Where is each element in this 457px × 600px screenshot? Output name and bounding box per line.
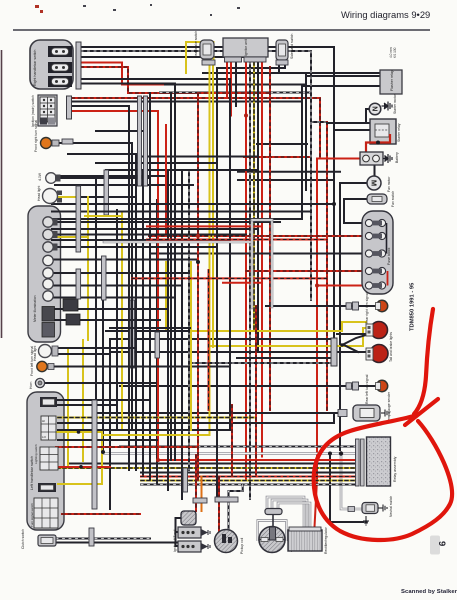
- wire reddash vertical x232: [231, 405, 233, 477]
- left long vertical yellow x68: [67, 350, 69, 466]
- svg-text:Ignitor unit: Ignitor unit: [244, 39, 248, 56]
- wire meter row 234: [52, 234, 246, 236]
- svg-text:Head light: Head light: [37, 186, 41, 201]
- wire tail yellow 2: [210, 328, 367, 346]
- wire headlight yellow: [58, 196, 88, 198]
- wire handlebar row5 red/black: [81, 67, 198, 93]
- starter switch connector: [48, 62, 72, 73]
- wires layer placeholder: [45, 42, 380, 546]
- flasher relay: [380, 70, 402, 94]
- wire headlight high 2: [55, 184, 193, 186]
- pickup connector bar: [215, 497, 238, 502]
- wire relay feed r7 yellow/black: [141, 480, 356, 482]
- svg-text:4.0W: 4.0W: [38, 172, 42, 181]
- pickup coil: [215, 530, 245, 555]
- svg-text:M: M: [369, 180, 378, 186]
- wire lhs horn switch: [57, 399, 148, 401]
- left vertical black x150: [149, 93, 151, 479]
- wire fan motor feed: [340, 182, 367, 184]
- turn indicator lamp: [43, 229, 53, 239]
- headlight bulb low: [33, 345, 58, 362]
- fuse 3 (ignition): [365, 250, 385, 257]
- vertical black x230: [229, 79, 231, 430]
- junction dot f: [328, 452, 332, 456]
- wire reddash row93 ext: [198, 92, 270, 94]
- wire row 197: [81, 196, 136, 198]
- svg-text:Meter illumination: Meter illumination: [33, 295, 37, 322]
- connector bar right of handlebar switch: [76, 42, 81, 89]
- front left turn signal: [30, 346, 54, 376]
- wire turn switch reddash row: [62, 513, 140, 515]
- wire starter motor feed: [366, 109, 370, 123]
- wire battery negative drop: [374, 165, 376, 176]
- wire coil feed orange: [201, 477, 203, 512]
- left vertical black x171: [170, 93, 172, 461]
- wire relay feed r3 black: [68, 463, 356, 465]
- wire row 163: [96, 162, 217, 164]
- wire meter row 259: [52, 259, 196, 261]
- vertical black x217: [216, 68, 218, 497]
- wire headlight low 2: [58, 353, 110, 355]
- svg-text:Rectifier/regulator: Rectifier/regulator: [324, 526, 328, 554]
- connector bar x101: [102, 256, 107, 300]
- rear brake switch: [194, 31, 215, 65]
- wire white loop vertical 2: [271, 220, 274, 307]
- svg-text:Starter relay: Starter relay: [397, 123, 401, 142]
- sidestand ground lug: [363, 516, 369, 525]
- vertical ignitor drop black: [235, 62, 237, 106]
- wire reddash vertical x208: [208, 270, 210, 410]
- wire row 154: [68, 153, 136, 155]
- connector bar mid x149: [144, 96, 148, 186]
- connector block mid 1: [63, 299, 78, 311]
- svg-text:Temp gauge sender: Temp gauge sender: [387, 391, 391, 422]
- junction dot tail trunk: [340, 343, 344, 347]
- junction dot i: [196, 260, 200, 264]
- wire lhs dimmer2 yellow/black: [58, 417, 254, 419]
- wire black tail trunk: [106, 330, 190, 332]
- alternator: [258, 509, 293, 553]
- wire clutch switch 1 black/white: [56, 538, 150, 540]
- vertical yellow/black x254: [253, 62, 255, 330]
- vertical red/black x327: [326, 122, 328, 410]
- wire rear left turn feed: [120, 385, 376, 387]
- wire blackwhite mid: [160, 92, 311, 94]
- wire lighting red row: [57, 466, 110, 468]
- rear right turn signal: [346, 292, 388, 324]
- connector bar x130: [130, 300, 135, 368]
- wire front right turn: [51, 143, 132, 430]
- vertical red x162: [157, 111, 159, 460]
- fuse 2 (signal): [365, 232, 385, 239]
- temp gauge block: [42, 307, 55, 322]
- wire yellow rear brake top: [186, 42, 214, 73]
- vertical red x262: [261, 62, 263, 457]
- vertical yellow x206: [209, 64, 211, 435]
- chapter tab 9: [430, 536, 440, 555]
- headlight bulb high: [37, 186, 62, 204]
- oil level indicator lamp: [43, 255, 53, 265]
- wire lhs dimmer1: [57, 404, 117, 406]
- svg-text:Starter motor: Starter motor: [393, 93, 397, 114]
- wire tail feed row1: [110, 338, 331, 340]
- wire row 156: [143, 156, 258, 158]
- header rule: [13, 29, 430, 31]
- svg-text:Lighting switch: Lighting switch: [34, 444, 38, 464]
- lighting switch grid: [34, 444, 58, 470]
- wire fuse1 feed: [344, 222, 365, 224]
- starter relay: [366, 119, 401, 153]
- starter motor: [369, 93, 397, 114]
- wire rear brake to flasher row: [203, 72, 380, 74]
- left vertical black x129: [128, 106, 130, 470]
- wire handlebar row1 black: [81, 46, 334, 48]
- dimmer switch grid: [41, 416, 56, 440]
- wire relay feed r5 black: [141, 472, 356, 474]
- relay assembly: [367, 437, 398, 486]
- wire black 144: [257, 143, 307, 145]
- passing switch connector: [38, 483, 56, 492]
- vertical black x334: [333, 47, 335, 360]
- wire battery positive red: [317, 158, 363, 160]
- wire fuel pump feed: [96, 412, 338, 414]
- left vertical black x175: [174, 84, 176, 461]
- connector block mid 2: [66, 314, 80, 325]
- left handlebar switch body: [27, 392, 64, 530]
- wire lhs lighting1: [58, 415, 334, 423]
- svg-text:Flasher relay: Flasher relay: [390, 70, 394, 91]
- fuse block: [362, 211, 393, 294]
- vertical red/black x196: [197, 93, 199, 480]
- wire white loop vertical 1: [251, 220, 254, 308]
- front right turn signal: [34, 120, 59, 152]
- wire flasher row2: [165, 76, 380, 85]
- left vertical black x157: [156, 200, 158, 484]
- wire row 131: [96, 130, 146, 132]
- connector bar x76 lower: [76, 269, 81, 299]
- wire meter row 297: [52, 297, 175, 299]
- left long vertical yellow x83: [82, 340, 84, 461]
- tail and brake light 2: [366, 332, 393, 363]
- wire reddash vertical x256: [255, 306, 257, 475]
- ignitor unit: [223, 38, 268, 62]
- wire handlebar row7 black: [81, 83, 175, 85]
- ignition switch connector bar: [67, 96, 72, 119]
- fuse 4 (fan): [365, 267, 385, 274]
- wire lhs row 440: [58, 439, 157, 441]
- junction dot d: [315, 284, 319, 288]
- coil connector bar: [193, 498, 207, 503]
- wire lhs lighting2: [58, 429, 230, 431]
- junction dot yellow tail: [188, 329, 192, 333]
- svg-text:Rear left turn signal: Rear left turn signal: [365, 374, 369, 404]
- svg-text:Horn: Horn: [29, 382, 33, 389]
- fuel pump ground: [381, 410, 389, 417]
- fan switch: [367, 191, 395, 207]
- wire relay feed r1 black/white: [120, 446, 356, 448]
- junction dot a: [339, 451, 343, 455]
- wire white loop top: [252, 219, 272, 222]
- left vertical black x136: [135, 155, 137, 470]
- left vertical black x96: [95, 176, 97, 452]
- junction dot g: [101, 450, 105, 454]
- scan speckles top: [35, 5, 43, 13]
- clutch connector bar: [89, 528, 94, 546]
- svg-text:Battery: Battery: [395, 152, 399, 163]
- wire black 180: [238, 179, 334, 181]
- tail and brake light 1: [366, 322, 388, 339]
- wire ignition switch black: [72, 101, 302, 103]
- neutral switch: [362, 496, 393, 517]
- tail light connector bar: [331, 338, 337, 366]
- engine stop switch connector: [48, 76, 72, 87]
- vertical black x302: [301, 86, 303, 219]
- wire meter row 211: [52, 211, 311, 213]
- wire meter row 273: [52, 272, 189, 274]
- svg-text:Fan switch: Fan switch: [391, 191, 395, 207]
- wire fuse4 feed red/black: [246, 270, 365, 272]
- vertical black x258: [257, 57, 259, 350]
- svg-text:Sidestand switch: Sidestand switch: [290, 33, 294, 59]
- junction dot e: [332, 202, 336, 206]
- wire main fuse red link: [317, 285, 365, 287]
- wire handlebar row4 red: [81, 63, 246, 85]
- fuse 1 (headlight): [365, 219, 385, 226]
- svg-text:Rear right turn signal: Rear right turn signal: [365, 292, 369, 324]
- component bodies underlay: [27, 40, 73, 530]
- fuel gauge block: [42, 323, 55, 338]
- svg-text:Scanned by Stalker: Scanned by Stalker: [401, 589, 457, 595]
- wire black 171.7 fan feed: [238, 171, 340, 173]
- wire relay feed r8 black/white: [141, 484, 356, 486]
- svg-text:KS 130: KS 130: [393, 47, 397, 58]
- vertical black x306: [305, 73, 307, 190]
- wire yellow vertical x166: [165, 262, 167, 331]
- wire fuse2 feed red/black: [149, 235, 365, 237]
- wire horn feed: [45, 382, 155, 384]
- relay assembly connector bars: [356, 439, 360, 486]
- left vertical yellow x122: [121, 213, 123, 430]
- wire white loop horizontal: [104, 241, 252, 244]
- wire flasher row3: [302, 85, 380, 87]
- svg-text:TDM850 1991 - 95: TDM850 1991 - 95: [410, 282, 416, 331]
- wire tail yellow 1: [190, 322, 366, 331]
- wire meter row 204: [52, 203, 334, 205]
- meter lamp 3: [43, 291, 53, 301]
- wire handlebar row2 black/white: [81, 50, 311, 52]
- right handlebar switch body: [30, 40, 73, 89]
- wire row 170: [106, 169, 258, 171]
- wire sidestand pin1: [278, 65, 280, 73]
- wire blackdash corner: [311, 121, 327, 123]
- wire front left turn: [54, 366, 230, 368]
- left vertical black x117: [116, 210, 118, 430]
- left vertical black x182: [181, 170, 183, 499]
- horn: [29, 378, 45, 389]
- fuse bus red: [387, 271, 389, 286]
- components layer placeholder: [21, 31, 402, 554]
- wire fan switch feed: [344, 199, 367, 223]
- wire alternator white 3: [278, 503, 310, 527]
- ignition HT coil unit: [173, 511, 196, 552]
- wire relay feed r4 yellow/black: [57, 467, 356, 469]
- svg-text:LO: LO: [42, 435, 47, 439]
- wire alternator white 2: [272, 500, 307, 527]
- svg-text:Rear brake switch: Rear brake switch: [194, 31, 198, 58]
- connector bar small horizontal x62: [62, 139, 73, 144]
- fuse 5 (main): [365, 282, 385, 289]
- vertical yellow x210: [212, 64, 214, 347]
- connector bar x93: [92, 400, 97, 509]
- vertical black x340 fan/neutral: [339, 183, 341, 450]
- wire ignition switch red: [72, 110, 158, 112]
- wire red row 283: [223, 282, 262, 284]
- wire neutral white drop: [341, 454, 362, 510]
- battery ground: [383, 154, 392, 163]
- svg-text:Clutch switch: Clutch switch: [21, 529, 25, 549]
- front brake switch connector: [48, 46, 72, 57]
- vertical ignitor drop red2: [230, 62, 232, 116]
- wire black row 358: [237, 357, 331, 359]
- wire reddash row 239: [147, 239, 327, 241]
- junction dot c: [196, 234, 200, 238]
- vertical red/black x270: [269, 67, 271, 410]
- svg-text:Front left turn signal: Front left turn signal: [30, 346, 34, 376]
- svg-text:Fuse block: Fuse block: [387, 247, 391, 265]
- scan left edge line: [1, 50, 3, 338]
- wire sidestand pin2: [217, 65, 285, 68]
- meter lamp 1: [43, 268, 53, 278]
- wire meter row 285: [52, 285, 182, 287]
- wire ignition switch brown: [72, 105, 129, 107]
- vertical black x330 relay down: [330, 454, 363, 523]
- wire meter row 222: [52, 221, 280, 223]
- svg-text:Fan motor: Fan motor: [387, 176, 391, 192]
- wire neutral white row: [104, 452, 356, 455]
- wire ignition switch red/black: [72, 98, 320, 157]
- wire starter relay feed1: [327, 122, 371, 124]
- wire temp gauge row: [55, 319, 160, 321]
- horn switch connector: [40, 397, 57, 407]
- junction dot h: [244, 114, 248, 118]
- wire reddash 157: [244, 156, 311, 158]
- headlight connector bar upper: [76, 186, 81, 252]
- wire pickup lead reddash: [218, 477, 220, 532]
- wire coil primary bus: [176, 518, 184, 546]
- clutch switch: [21, 529, 56, 549]
- wire black row 328: [110, 327, 190, 329]
- left vertical black x103: [102, 262, 104, 452]
- rear left turn signal: [346, 374, 388, 404]
- wire starter relay feed2: [334, 129, 371, 131]
- wire meter row 229: [52, 228, 258, 230]
- wire lhs yellow feed: [102, 434, 210, 436]
- connector bar x104 upper: [104, 170, 109, 215]
- junction dot b: [156, 458, 160, 462]
- turn signal switch grid: [30, 498, 58, 528]
- starter motor ground: [382, 102, 393, 111]
- wire yellow vertical x191: [190, 262, 192, 430]
- red highlight scribble: [314, 309, 452, 540]
- wire red row 226: [147, 225, 262, 227]
- wire tail feed row2: [110, 351, 331, 353]
- neutral switch ground: [378, 505, 387, 512]
- instrument cluster body: [28, 206, 61, 342]
- vertical black/white x311: [310, 51, 312, 300]
- left vertical black x143: [142, 170, 144, 475]
- wire meter row 240: [52, 239, 230, 241]
- connector bar x183: [183, 468, 188, 492]
- wire meter row 219: [52, 218, 302, 220]
- svg-text:Turn signal switch: Turn signal switch: [30, 503, 34, 527]
- ignition coil 1 with spark plugs: [178, 527, 210, 538]
- svg-text:Wiring diagrams 9•29: Wiring diagrams 9•29: [341, 9, 430, 20]
- wire lhs passing red/black: [56, 446, 196, 448]
- rectifier / regulator: [288, 526, 328, 554]
- svg-text:Tail and brake lights: Tail and brake lights: [389, 332, 393, 362]
- wire relay feed r6 red/black: [141, 476, 356, 478]
- meter lamp 2: [43, 279, 53, 289]
- svg-text:N: N: [371, 106, 378, 111]
- wire blackdash row 363: [193, 362, 331, 364]
- wire reddash row 278: [132, 277, 327, 279]
- wire handlebar row3 black: [81, 56, 258, 58]
- wire tail black stem2: [337, 345, 366, 352]
- wire meter row 247: [52, 246, 217, 248]
- svg-text:Relay assembly: Relay assembly: [393, 456, 397, 482]
- fan motor: [367, 176, 391, 192]
- wire red vertical x166: [165, 125, 167, 236]
- battery: [360, 152, 399, 165]
- vertical long black/white x250: [249, 62, 251, 499]
- connector bar mid x143: [138, 96, 142, 186]
- wire alternator white 1: [267, 497, 304, 527]
- wire position lamp: [59, 175, 168, 177]
- junction dot ground row: [364, 520, 368, 524]
- sidestand switch: [276, 33, 294, 65]
- wire pickup lead blackdash: [229, 485, 243, 532]
- wire relay feed r2 red: [158, 459, 356, 461]
- wire meter row 309: [52, 308, 168, 310]
- position lamp bulb: [38, 172, 61, 183]
- left vertical black/white x189: [188, 170, 190, 470]
- left vertical black x168: [167, 170, 169, 490]
- vertical long red x246: [245, 62, 247, 480]
- ignition (main) switch: [31, 95, 57, 127]
- svg-text:Pickup coil: Pickup coil: [240, 538, 244, 554]
- wire yellow dimmer loop: [54, 432, 102, 484]
- svg-text:Ignition HT coil: Ignition HT coil: [173, 529, 177, 552]
- wire coil feed red 1: [195, 455, 197, 511]
- svg-text:Right handlebar switch: Right handlebar switch: [33, 50, 37, 86]
- svg-text:9: 9: [436, 541, 447, 546]
- wire tail black stem1: [337, 334, 366, 345]
- neutral indicator lamp: [43, 242, 53, 252]
- svg-text:Neutral switch: Neutral switch: [389, 496, 393, 517]
- wire handlebar row6 black: [81, 78, 230, 80]
- wire yellow vertical x89: [87, 197, 89, 340]
- high beam indicator: [43, 217, 53, 227]
- connector bar x155: [155, 332, 160, 358]
- vertical ignitor drop red1: [226, 62, 228, 98]
- left vertical black x110: [109, 340, 111, 509]
- fuel pump / turn relay unit: [338, 391, 391, 422]
- svg-text:HI: HI: [42, 419, 45, 423]
- wire rear right turn feed: [266, 305, 376, 307]
- wire clutch switch 2: [56, 542, 182, 544]
- wire headlight low 1: [58, 347, 136, 349]
- svg-text:Front right turn signal: Front right turn signal: [34, 120, 38, 152]
